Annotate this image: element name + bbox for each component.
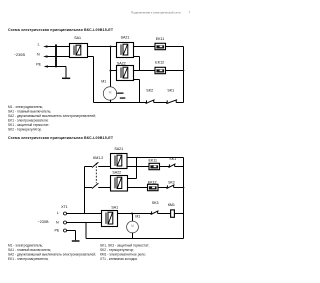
svg-text:~230В: ~230В xyxy=(37,220,49,224)
svg-text:SA21: SA21 xyxy=(121,35,130,39)
svg-text:N: N xyxy=(37,52,40,56)
svg-text:SK2 - терморегулятор.: SK2 - терморегулятор. xyxy=(8,127,42,131)
svg-text:КМ1: КМ1 xyxy=(168,203,175,207)
svg-text:SK1: SK1 xyxy=(167,89,174,93)
svg-text:Схема электрическая принципиал: Схема электрическая принципиальная ВКС-L… xyxy=(8,136,114,140)
svg-text:SA21: SA21 xyxy=(114,147,123,151)
svg-text:EK12: EK12 xyxy=(148,180,157,184)
svg-text:SA1 - главный выключатель;: SA1 - главный выключатель; xyxy=(8,109,51,113)
svg-text:EK11: EK11 xyxy=(156,37,165,41)
svg-text:SK3: SK3 xyxy=(152,201,159,205)
svg-text:N: N xyxy=(56,220,59,224)
svg-text:M: M xyxy=(131,224,134,228)
svg-text:L: L xyxy=(57,211,59,215)
svg-text:Подключение к электрической се: Подключение к электрической сети xyxy=(131,10,181,14)
svg-text:Схема электрическая принципиал: Схема электрическая принципиальная ВКС-L… xyxy=(8,28,114,32)
svg-text:М1: М1 xyxy=(135,215,140,219)
svg-text:SA2 - двухклавишный выключател: SA2 - двухклавишный выключатель электрон… xyxy=(8,252,96,256)
svg-text:КМ1.2: КМ1.2 xyxy=(93,156,103,160)
svg-text:XT1 - клеммная колодка.: XT1 - клеммная колодка. xyxy=(100,257,138,261)
svg-text:~230В: ~230В xyxy=(14,53,26,57)
svg-text:SA1 - главный выключатель;: SA1 - главный выключатель; xyxy=(8,248,51,252)
svg-text:XT1: XT1 xyxy=(61,205,68,209)
svg-text:PE: PE xyxy=(55,228,60,232)
svg-text:SK1 - защитный термостат;: SK1 - защитный термостат; xyxy=(8,123,50,127)
svg-text:EK11: EK11 xyxy=(149,159,158,163)
svg-text:SA1: SA1 xyxy=(111,205,118,209)
svg-text:SA2 - двухклавишный выключател: SA2 - двухклавишный выключатель электрон… xyxy=(8,114,96,118)
svg-text:М1 - электродвигатель;: М1 - электродвигатель; xyxy=(8,243,43,247)
svg-text:SA22: SA22 xyxy=(117,61,126,65)
svg-text:SA1: SA1 xyxy=(74,36,81,40)
svg-text:PE: PE xyxy=(36,63,41,67)
svg-text:SK2 - терморегулятор;: SK2 - терморегулятор; xyxy=(100,248,134,252)
svg-text:EK12: EK12 xyxy=(155,61,164,65)
svg-text:SA22: SA22 xyxy=(112,170,121,174)
svg-text:M: M xyxy=(109,90,112,94)
svg-text:КМ1 - электромагнитное реле;: КМ1 - электромагнитное реле; xyxy=(100,252,146,256)
svg-text:М1 - электродвигатель;: М1 - электродвигатель; xyxy=(8,105,43,109)
svg-text:EK1 - электронагреватели;: EK1 - электронагреватели; xyxy=(8,118,49,122)
svg-text:М1: М1 xyxy=(101,79,106,83)
svg-text:L: L xyxy=(38,43,40,47)
svg-text:SK2: SK2 xyxy=(146,89,153,93)
svg-text:SK1, SK3 - защитный термостат;: SK1, SK3 - защитный термостат; xyxy=(100,243,149,247)
svg-text:SK2: SK2 xyxy=(168,180,175,184)
svg-text:EK1 - электронагреватели;: EK1 - электронагреватели; xyxy=(8,257,49,261)
